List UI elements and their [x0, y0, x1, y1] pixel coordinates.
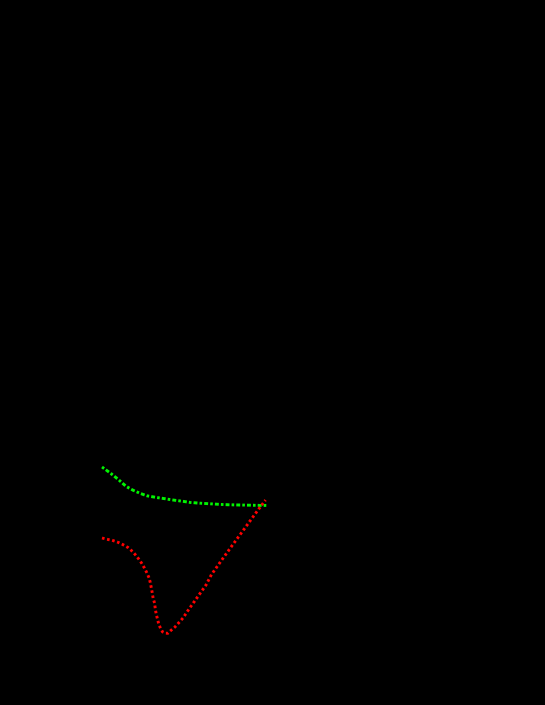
red dotted curve (series 2) — [102, 500, 266, 633]
green dotted curve (series 1) — [102, 467, 268, 506]
